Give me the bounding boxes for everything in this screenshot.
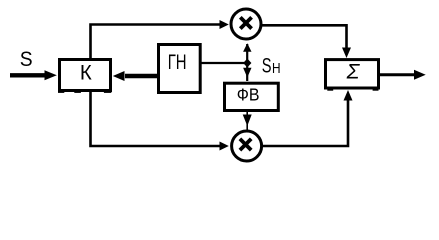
wire top multiplier to summator top — [261, 25, 347, 48]
svg-text:К: К — [80, 61, 92, 84]
arrowhead up into top multiplier — [243, 43, 251, 52]
arrowhead down into FV — [243, 68, 251, 78]
wire GN right to junction — [201, 62, 246, 64]
block FV (phase shifter) — [225, 83, 279, 110]
svg-text:S: S — [20, 48, 33, 71]
wire bottom multiplier to summator bottom — [262, 100, 348, 146]
block SUM (summator) — [326, 60, 379, 88]
wire vertical junction line between top multiplier and FV — [246, 44, 248, 81]
svg-text:Σ: Σ — [346, 61, 361, 84]
block K (modulator) — [60, 60, 111, 91]
svg-text:Н: Н — [272, 60, 281, 77]
block K shadow feet — [58, 91, 64, 93]
multiplier M2 cross — [240, 139, 251, 150]
block SUM shadow feet — [327, 89, 333, 91]
multiplier M1 top circle — [231, 9, 261, 39]
junction node dot — [243, 59, 251, 68]
wire output arrow — [380, 73, 415, 76]
svg-text:ФВ: ФВ — [237, 85, 260, 105]
block GN (reference oscillator) — [159, 45, 201, 93]
multiplier M1 cross — [240, 17, 251, 28]
multiplier M2 bottom circle — [232, 131, 262, 161]
svg-text:S: S — [262, 53, 272, 78]
wire GN output arrow into K — [125, 74, 157, 78]
wire K bottom to bottom multiplier — [91, 92, 221, 146]
wire S input arrow into K — [10, 73, 45, 77]
wire FV bottom to bottom multiplier — [246, 112, 248, 131]
wire K top to top multiplier — [91, 25, 221, 59]
svg-text:ГН: ГН — [168, 49, 187, 73]
